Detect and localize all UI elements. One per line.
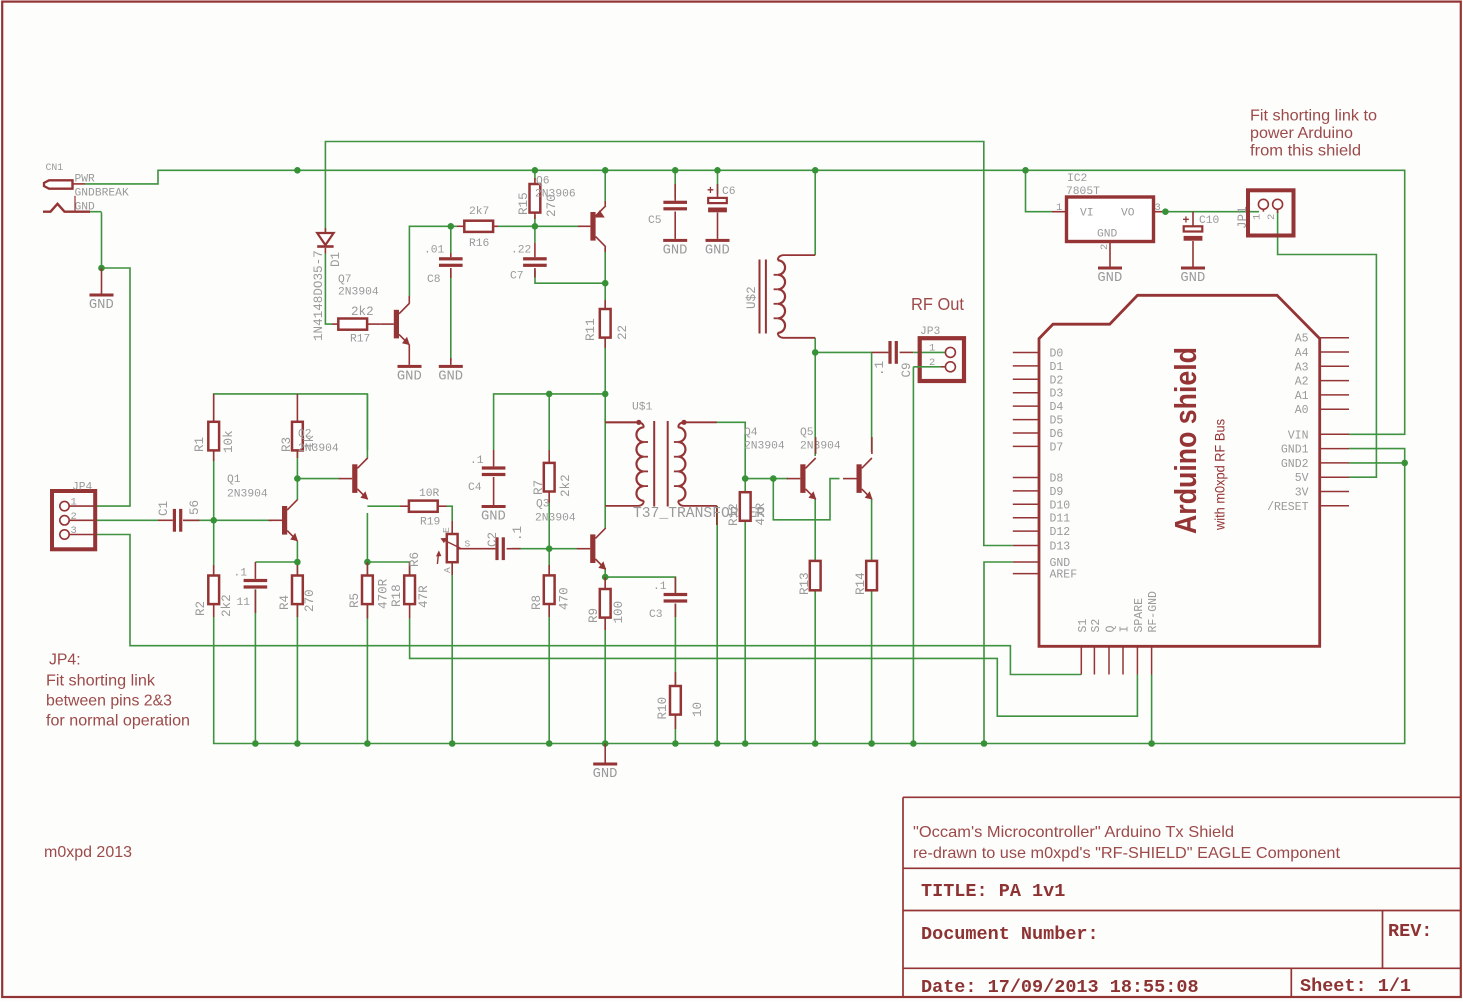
svg-text:Q4: Q4: [744, 427, 758, 439]
svg-text:A1: A1: [1295, 390, 1309, 403]
svg-text:R8: R8: [530, 595, 544, 610]
svg-text:D1: D1: [1050, 361, 1064, 374]
svg-text:100: 100: [612, 601, 626, 624]
svg-text:GND: GND: [481, 510, 506, 525]
svg-text:GND: GND: [1097, 229, 1118, 241]
svg-text:A: A: [442, 567, 453, 573]
svg-text:Fit shorting link: Fit shorting link: [46, 673, 155, 690]
svg-text:VO: VO: [1121, 208, 1135, 220]
svg-text:R5: R5: [348, 593, 362, 608]
svg-text:GND: GND: [438, 369, 463, 384]
svg-text:S1: S1: [1077, 619, 1090, 633]
svg-text:2N3904: 2N3904: [338, 287, 379, 299]
svg-text:.1: .1: [234, 568, 248, 580]
svg-text:.1: .1: [653, 581, 667, 593]
svg-text:D12: D12: [1050, 526, 1071, 539]
svg-text:.1: .1: [873, 361, 887, 376]
svg-text:2N3906: 2N3906: [535, 189, 576, 201]
svg-text:.1: .1: [470, 455, 484, 467]
svg-text:TITLE: PA 1v1: TITLE: PA 1v1: [921, 881, 1065, 902]
svg-text:Q2: Q2: [298, 429, 312, 441]
svg-text:1: 1: [929, 343, 935, 355]
svg-text:C2: C2: [486, 532, 500, 547]
svg-text:/RESET: /RESET: [1267, 501, 1309, 514]
svg-text:2N3904: 2N3904: [298, 443, 339, 455]
svg-text:D3: D3: [1050, 388, 1064, 401]
svg-text:2k7: 2k7: [469, 206, 489, 218]
svg-text:2k2: 2k2: [351, 305, 374, 319]
svg-text:A2: A2: [1295, 376, 1309, 389]
svg-text:SPARE: SPARE: [1133, 598, 1146, 633]
svg-text:REV:: REV:: [1388, 921, 1432, 942]
svg-text:GND: GND: [1180, 271, 1205, 286]
svg-text:C10: C10: [1199, 215, 1220, 227]
svg-text:+: +: [707, 185, 714, 198]
svg-text:R14: R14: [854, 572, 868, 595]
svg-text:R2: R2: [194, 601, 208, 616]
svg-text:2: 2: [1266, 214, 1278, 220]
svg-text:C8: C8: [427, 274, 441, 286]
svg-text:D7: D7: [1050, 441, 1064, 454]
svg-text:VI: VI: [1080, 208, 1094, 220]
svg-text:from this shield: from this shield: [1250, 143, 1361, 160]
svg-text:10: 10: [691, 702, 705, 717]
svg-text:GND1: GND1: [1281, 444, 1309, 457]
svg-text:C4: C4: [468, 482, 482, 494]
svg-text:D4: D4: [1050, 401, 1064, 414]
svg-text:GND: GND: [663, 243, 688, 258]
svg-text:R4: R4: [278, 595, 292, 610]
svg-text:Document Number:: Document Number:: [921, 924, 1099, 945]
svg-text:D8: D8: [1050, 473, 1064, 486]
svg-text:D13: D13: [1050, 541, 1071, 554]
svg-text:RF Out: RF Out: [911, 294, 964, 314]
svg-text:470R: 470R: [377, 578, 391, 609]
svg-text:3: 3: [71, 525, 77, 537]
svg-text:JP4:: JP4:: [49, 652, 81, 669]
svg-text:R18: R18: [390, 584, 404, 607]
svg-text:Q: Q: [1105, 626, 1118, 633]
svg-text:D5: D5: [1050, 415, 1064, 428]
svg-text:Date: 17/09/2013 18:55:08: Date: 17/09/2013 18:55:08: [921, 977, 1199, 998]
svg-text:C3: C3: [649, 609, 663, 621]
svg-text:JP4: JP4: [72, 482, 93, 494]
svg-text:R13: R13: [798, 572, 812, 595]
svg-text:Q7: Q7: [338, 274, 352, 286]
svg-text:C1: C1: [157, 501, 171, 516]
svg-text:between pins 2&3: between pins 2&3: [46, 693, 172, 710]
svg-text:1: 1: [1056, 202, 1062, 214]
svg-text:Q6: Q6: [536, 176, 550, 188]
svg-text:C9: C9: [900, 362, 914, 377]
svg-text:R17: R17: [350, 334, 370, 346]
svg-text:RF-GND: RF-GND: [1147, 591, 1160, 633]
svg-text:270: 270: [303, 589, 317, 612]
svg-text:5V: 5V: [1295, 472, 1309, 485]
svg-text:m0xpd 2013: m0xpd 2013: [44, 844, 132, 861]
svg-text:R10: R10: [656, 697, 670, 720]
svg-text:R6: R6: [408, 552, 422, 567]
svg-text:2N3904: 2N3904: [535, 513, 576, 525]
svg-text:R16: R16: [469, 238, 490, 250]
svg-text:GND: GND: [89, 298, 114, 313]
svg-text:S: S: [465, 539, 471, 550]
svg-text:A3: A3: [1295, 361, 1309, 374]
svg-text:R15: R15: [517, 192, 531, 215]
svg-text:A5: A5: [1295, 333, 1309, 346]
svg-text:GND: GND: [705, 243, 730, 258]
svg-text:R3: R3: [280, 437, 294, 452]
svg-text:power Arduino: power Arduino: [1250, 125, 1353, 142]
svg-text:C7: C7: [510, 271, 524, 283]
svg-text:2k2: 2k2: [559, 474, 573, 497]
svg-text:D0: D0: [1050, 348, 1064, 361]
svg-text:2k2: 2k2: [220, 594, 234, 617]
svg-text:IC2: IC2: [1067, 173, 1087, 185]
svg-text:Q5: Q5: [800, 427, 814, 439]
svg-text:47R: 47R: [754, 502, 768, 525]
svg-text:D9: D9: [1050, 486, 1064, 499]
svg-text:GND: GND: [593, 767, 618, 782]
svg-text:R9: R9: [587, 608, 601, 623]
svg-text:47R: 47R: [417, 585, 431, 608]
svg-text:R11: R11: [584, 318, 598, 341]
svg-text:C6: C6: [722, 186, 736, 198]
svg-text:E: E: [441, 527, 452, 533]
svg-text:D2: D2: [1050, 374, 1064, 387]
svg-text:470: 470: [558, 587, 572, 610]
svg-text:R19: R19: [420, 517, 440, 529]
svg-text:.01: .01: [424, 245, 445, 257]
svg-text:22: 22: [616, 325, 630, 340]
svg-text:10R: 10R: [419, 488, 440, 500]
svg-text:S2: S2: [1090, 619, 1103, 633]
svg-text:.1: .1: [511, 526, 525, 541]
svg-text:2N3904: 2N3904: [227, 489, 268, 501]
svg-text:R12: R12: [727, 503, 741, 526]
svg-text:Q3: Q3: [536, 499, 550, 511]
svg-text:GND: GND: [397, 369, 422, 384]
svg-text:AREF: AREF: [1050, 569, 1078, 582]
svg-text:PWR: PWR: [75, 174, 96, 186]
svg-text:11: 11: [237, 597, 251, 609]
svg-text:D1: D1: [329, 252, 343, 267]
svg-text:Q1: Q1: [227, 474, 241, 486]
svg-text:C5: C5: [648, 215, 662, 227]
svg-text:re-drawn to use m0xpd's "RF-SH: re-drawn to use m0xpd's "RF-SHIELD" EAGL…: [913, 845, 1341, 862]
svg-text:R7: R7: [532, 480, 546, 495]
svg-text:3V: 3V: [1295, 487, 1309, 500]
svg-text:U$2: U$2: [745, 286, 759, 309]
svg-text:56: 56: [188, 500, 202, 515]
svg-text:+: +: [1183, 215, 1190, 228]
svg-text:R1: R1: [193, 437, 207, 452]
svg-text:for normal operation: for normal operation: [46, 713, 190, 730]
svg-text:A0: A0: [1295, 404, 1309, 417]
svg-text:.22: .22: [511, 245, 531, 257]
svg-text:2: 2: [1099, 244, 1111, 250]
svg-text:3: 3: [1155, 202, 1161, 214]
svg-text:Fit shorting link to: Fit shorting link to: [1250, 108, 1377, 125]
svg-text:2N3904: 2N3904: [800, 441, 841, 453]
svg-text:10k: 10k: [222, 430, 236, 453]
svg-text:1N4148DO35-7: 1N4148DO35-7: [312, 250, 326, 341]
svg-text:D6: D6: [1050, 428, 1064, 441]
svg-text:Arduino shield: Arduino shield: [1168, 347, 1203, 534]
svg-text:D11: D11: [1050, 513, 1071, 526]
svg-text:"Occam's Microcontroller" Ardu: "Occam's Microcontroller" Arduino Tx Shi…: [913, 824, 1234, 841]
svg-text:with m0xpd RF Bus: with m0xpd RF Bus: [1213, 419, 1228, 531]
svg-text:GND: GND: [1097, 271, 1122, 286]
svg-text:1: 1: [71, 497, 77, 509]
svg-text:CN1: CN1: [46, 162, 64, 173]
svg-text:U$1: U$1: [632, 402, 653, 414]
svg-text:2: 2: [71, 511, 77, 523]
svg-text:GND2: GND2: [1281, 458, 1309, 471]
svg-text:GNDBREAK: GNDBREAK: [75, 188, 129, 200]
svg-text:2: 2: [929, 357, 935, 369]
svg-text:A4: A4: [1295, 347, 1309, 360]
svg-text:VIN: VIN: [1288, 429, 1309, 442]
svg-text:2N3904: 2N3904: [744, 441, 785, 453]
svg-text:JP1: JP1: [1236, 206, 1250, 229]
svg-text:I: I: [1119, 626, 1132, 633]
svg-text:D10: D10: [1050, 499, 1071, 512]
svg-text:JP3: JP3: [920, 326, 941, 338]
svg-text:7805T: 7805T: [1066, 186, 1100, 198]
svg-text:1: 1: [1252, 214, 1264, 220]
svg-text:Sheet: 1/1: Sheet: 1/1: [1300, 976, 1411, 997]
